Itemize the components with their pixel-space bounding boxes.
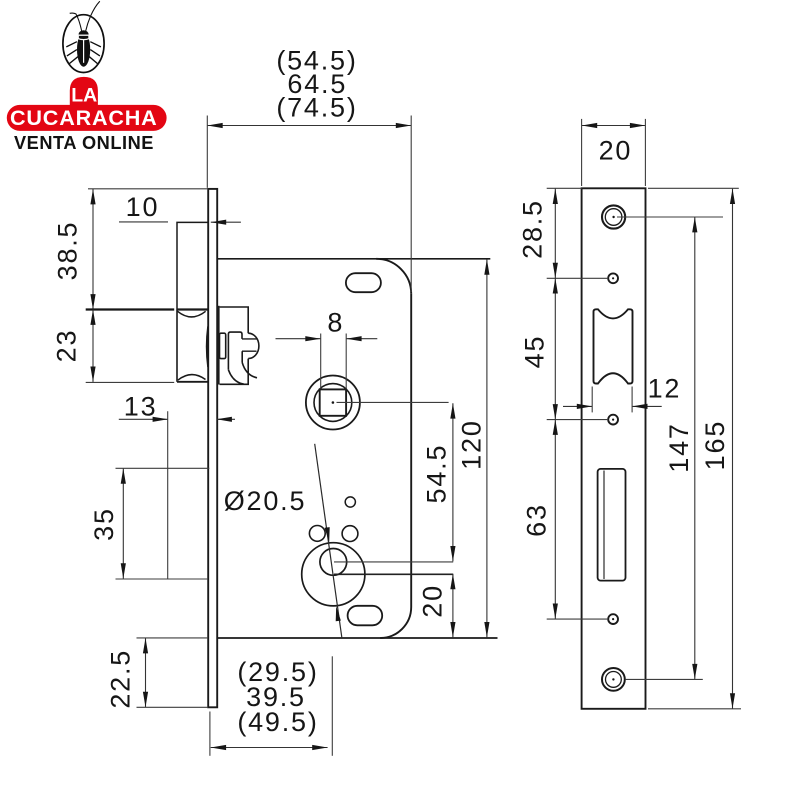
dim line 8 left — [276, 338, 321, 340]
svg-text:8: 8 — [327, 308, 344, 338]
dim line 22.5 — [145, 638, 147, 707]
cockroach antenna left — [70, 13, 82, 31]
spindle square hole — [320, 389, 346, 415]
pin hole 3 — [608, 614, 618, 624]
svg-text:54.5: 54.5 — [422, 444, 452, 504]
ext line 20 plate left — [581, 119, 583, 186]
ext line backset left — [209, 712, 211, 756]
ext line 12 right — [631, 387, 633, 413]
cockroach legs right — [89, 42, 101, 64]
ext line top right — [410, 116, 412, 293]
small pin hole — [345, 497, 355, 507]
cockroach collar stripe — [77, 38, 89, 39]
latch case dark bar — [217, 306, 220, 385]
deadbolt slot — [598, 469, 626, 581]
svg-text:20: 20 — [418, 584, 448, 618]
cylinder hole big circle — [302, 543, 365, 606]
svg-text:20: 20 — [599, 135, 633, 165]
latch cam sweep inner — [242, 363, 257, 378]
roller left edge — [176, 310, 178, 382]
svg-text:147: 147 — [664, 422, 694, 472]
ext line plate top right — [648, 187, 739, 189]
dim line width top — [207, 125, 411, 127]
ext line 35 top — [116, 467, 210, 469]
dim line 13 right — [217, 418, 236, 420]
center line spindle — [337, 401, 449, 403]
dim line 13 left — [119, 418, 168, 420]
svg-text:13: 13 — [124, 392, 158, 422]
pin hole 1 dot — [612, 277, 614, 279]
svg-text:CUCARACHA: CUCARACHA — [10, 105, 158, 130]
latch plunger guide — [220, 333, 226, 358]
spindle center dot — [332, 401, 335, 404]
svg-text:12: 12 — [648, 374, 682, 404]
cockroach antenna right — [86, 1, 100, 31]
bottom screw hole outer — [602, 668, 625, 691]
top screw hole dot — [612, 216, 614, 218]
ext line 8 right — [345, 334, 347, 389]
ext line pin hole 2 — [547, 419, 609, 421]
svg-text:LA: LA — [71, 84, 97, 106]
dim line 54.5 — [452, 403, 454, 561]
ext line 23 bottom — [86, 381, 175, 383]
top screw hole outer — [602, 205, 625, 228]
svg-text:Ø20.5: Ø20.5 — [224, 486, 307, 516]
ext line top left — [206, 116, 208, 188]
dim line 28.5 — [554, 189, 556, 279]
ext line 12 left — [591, 387, 593, 413]
svg-text:35: 35 — [89, 507, 119, 541]
ext line plate top left — [547, 187, 582, 189]
ext line 8 left — [320, 334, 322, 389]
spindle inner circle — [314, 384, 352, 422]
logo LA tab — [70, 77, 98, 107]
cockroach legs left — [66, 42, 78, 64]
faceplate side view — [208, 189, 217, 707]
dim line 20 plate — [582, 125, 646, 127]
dim line 35 — [122, 468, 124, 578]
dim arrow 10 — [211, 221, 241, 223]
dim line 20 main — [452, 574, 454, 638]
roller side profile arc — [207, 327, 208, 368]
cylinder hole small circle — [320, 549, 347, 576]
svg-text:120: 120 — [457, 419, 487, 469]
dim line 23 — [92, 310, 94, 382]
svg-text:VENTA ONLINE: VENTA ONLINE — [14, 133, 154, 153]
ext line backset right — [331, 656, 333, 756]
roller bottom edge — [177, 381, 208, 383]
leader arrow bottom — [336, 606, 341, 621]
dim line 10 — [119, 221, 168, 223]
svg-text:45: 45 — [520, 335, 550, 369]
latch cam sweep outer — [228, 370, 244, 384]
svg-text:165: 165 — [700, 420, 730, 470]
leader line diameter — [315, 444, 342, 638]
dim line 63 — [554, 420, 556, 619]
lock body top edge — [217, 258, 490, 260]
ext line thick mid — [86, 308, 175, 310]
pin hole 2 dot — [612, 419, 614, 421]
roller top edge — [177, 308, 208, 310]
pin hole 1 — [608, 273, 618, 283]
center line cylinder big — [334, 573, 453, 575]
logo band — [7, 105, 167, 131]
dim line 120 — [486, 259, 488, 637]
latch cam body — [228, 332, 242, 370]
bottom screw hole dot — [612, 678, 614, 680]
svg-text:23: 23 — [52, 329, 82, 363]
dim line 12 left — [563, 405, 592, 407]
cockroach body — [77, 32, 90, 66]
strike plate front view — [582, 188, 646, 709]
svg-text:63: 63 — [522, 503, 552, 537]
dim line 147 — [694, 217, 696, 679]
latch plunger shaft — [242, 339, 257, 351]
ext line 35 bottom — [116, 578, 208, 580]
ext line 22.5 bottom — [137, 706, 208, 708]
latch plunger head bump — [248, 333, 259, 358]
svg-text:28.5: 28.5 — [518, 199, 548, 259]
pin hole 3 dot — [612, 618, 614, 620]
ext line 20 plate right — [644, 119, 646, 186]
center line cylinder small — [334, 561, 453, 563]
roller top concave arc — [177, 311, 205, 317]
lock body bottom edge — [217, 637, 498, 639]
logo ellipse — [63, 15, 104, 73]
dim line 45 — [554, 278, 556, 419]
dim line 12 right — [632, 405, 662, 407]
dim line 38.5 — [92, 189, 94, 310]
leader arrow top — [325, 527, 330, 542]
ext line 22.5 top — [137, 637, 208, 639]
bottom screw hole inner — [606, 672, 622, 688]
bottom screw slot oval — [348, 606, 383, 626]
svg-text:(74.5): (74.5) — [276, 92, 357, 122]
svg-text:10: 10 — [126, 192, 160, 222]
ext line top screw — [617, 216, 723, 218]
ext line 38.5 top — [88, 188, 208, 190]
roller bottom concave arc — [178, 375, 206, 381]
roller cutout — [594, 309, 633, 383]
spindle outer circle — [306, 376, 360, 430]
side hole left — [309, 526, 325, 542]
latch case box — [220, 307, 249, 384]
latch housing front — [177, 222, 208, 309]
svg-text:38.5: 38.5 — [53, 221, 83, 281]
top screw slot oval — [346, 273, 381, 292]
ext line pin hole 3 — [547, 618, 609, 620]
pin hole 2 — [608, 415, 618, 425]
ext line 13 vertical — [167, 411, 169, 579]
dim line 165 — [732, 189, 734, 709]
svg-text:(49.5): (49.5) — [237, 707, 318, 737]
top screw hole inner — [605, 209, 622, 226]
lock body bottom right corner — [380, 607, 411, 638]
cockroach head — [79, 30, 89, 39]
lock body right edge — [410, 294, 412, 607]
ext line bottom screw — [625, 678, 703, 680]
cockroach head stripe — [78, 34, 89, 36]
lock body top right corner — [376, 259, 411, 294]
ext line plate bottom right — [648, 708, 741, 710]
dim line backset — [211, 747, 328, 749]
ext line pin hole 1 — [547, 277, 609, 279]
deadbolt slot inner line — [603, 471, 605, 580]
cockroach wing midline — [83, 40, 85, 63]
svg-text:22.5: 22.5 — [106, 649, 136, 709]
dim line 8 right — [346, 338, 377, 340]
side hole right — [342, 526, 358, 542]
